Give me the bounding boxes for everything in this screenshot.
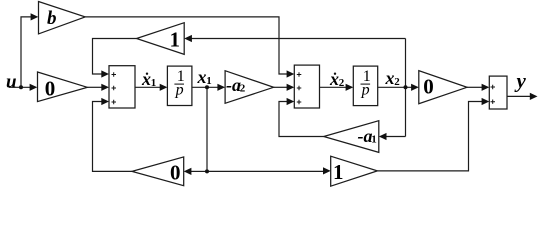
node dot u junction: [19, 85, 23, 89]
arrowhead summer1 bottom input: [101, 98, 109, 105]
gain b triangle: [39, 2, 86, 34]
arrowhead summer2 mid input: [287, 84, 295, 91]
arrowhead into gain -a1 (left): [379, 133, 387, 140]
node dot x2: [404, 85, 408, 89]
wire integrator1 output x1 to gain -a2: [192, 86, 218, 88]
arrowhead summer3 top input: [482, 84, 490, 91]
svg-text:p: p: [175, 82, 184, 99]
wire b output to summer2 top input: [85, 17, 287, 74]
svg-text:2: 2: [339, 77, 345, 89]
svg-text:2: 2: [240, 83, 246, 95]
svg-text:2: 2: [394, 76, 400, 88]
svg-text:x: x: [141, 69, 151, 89]
arrowhead into gain 1 top (left): [184, 35, 192, 42]
svg-text:b: b: [47, 8, 57, 29]
node dot x1 bottom junction: [205, 169, 209, 173]
svg-text:x: x: [329, 69, 339, 89]
arrowhead output y: [530, 93, 538, 100]
arrowhead into gain 0 right: [411, 84, 419, 91]
gain 0 bottom triangle: [132, 157, 184, 186]
arrowhead into gain 0 left: [30, 84, 38, 91]
gain 1 top triangle: [137, 23, 185, 55]
wire x2 feedback top to gain 1 top: [192, 38, 406, 40]
gain -a1 triangle: [324, 121, 379, 153]
wire u input: [9, 86, 31, 88]
summer S1 box: [109, 66, 135, 108]
svg-text:1: 1: [151, 77, 157, 89]
arrowhead into integrator2: [346, 84, 354, 91]
arrowhead summer1 mid input: [101, 84, 109, 91]
svg-text:-a: -a: [358, 126, 373, 146]
integrator 1/p second box: [353, 66, 377, 106]
svg-text:1: 1: [170, 28, 181, 52]
arrowhead into gain -a2: [217, 84, 225, 91]
integrator 1/p first box: [167, 66, 192, 105]
svg-text:1: 1: [206, 75, 212, 87]
wire gain 0 right output to summer3 top input: [467, 86, 482, 88]
svg-text:u: u: [6, 72, 17, 93]
wire summer3 output y: [507, 95, 531, 97]
wire summer2 output to integrator2: [320, 86, 347, 88]
svg-text:0: 0: [45, 77, 56, 101]
label xdot1: [146, 73, 148, 75]
svg-text:-a: -a: [226, 75, 241, 95]
svg-text:1: 1: [333, 160, 344, 184]
wire x2 feedback to gain -a1: [386, 136, 406, 138]
wire gain -a2 output to summer2 mid input: [274, 86, 287, 88]
gain 1 bottom triangle: [331, 156, 378, 186]
node dot x1: [205, 85, 209, 89]
wire node x2 vertical: [405, 39, 407, 137]
wire gain 0 bottom output to summer1 bottom input: [93, 102, 132, 172]
svg-text:y: y: [514, 69, 527, 93]
arrowhead summer2 top input: [287, 70, 295, 77]
wire summer1 output to integrator1: [135, 86, 161, 88]
svg-text:x: x: [385, 68, 395, 88]
summer S2 box: [294, 65, 319, 108]
wire x1 feedback to gain 0 bottom: [191, 170, 207, 172]
wire gain 1 bottom output to summer3 bottom input: [377, 102, 482, 171]
arrowhead summer3 bottom input: [482, 98, 490, 105]
svg-text:0: 0: [170, 160, 181, 184]
wire gain 1 top output to summer1 top input: [93, 39, 137, 75]
wire gain 0 left output to summer1 mid input: [87, 86, 102, 88]
wire node x1 down: [206, 87, 208, 171]
svg-text:p: p: [361, 82, 370, 99]
arrowhead into integrator1: [160, 84, 168, 91]
arrowhead into gain 0 bottom (left): [184, 168, 192, 175]
gain 0 left triangle: [38, 72, 88, 102]
summer S1 plus signs: [112, 72, 117, 104]
summer S3 output box: [489, 76, 507, 109]
wire integrator2 output x2 to gain 0 right: [378, 86, 412, 88]
svg-text:1: 1: [371, 134, 377, 146]
arrowhead into gain b: [31, 13, 39, 20]
wire u to b: [21, 17, 32, 87]
summer S2 plus signs: [297, 72, 302, 104]
label xdot2: [334, 73, 336, 75]
arrowhead summer2 bottom input: [287, 98, 295, 105]
wire gain -a1 output to summer2 bottom input: [279, 102, 324, 137]
gain 0 right triangle: [419, 71, 467, 104]
svg-text:x: x: [197, 67, 207, 87]
svg-text:0: 0: [423, 74, 434, 98]
arrowhead summer1 top input: [101, 70, 109, 77]
arrowhead into gain 1 bottom: [323, 167, 331, 174]
wire x1 feedback to gain 1 bottom: [207, 170, 324, 172]
summer S3 plus signs: [491, 85, 496, 104]
gain -a2 triangle: [225, 71, 274, 104]
